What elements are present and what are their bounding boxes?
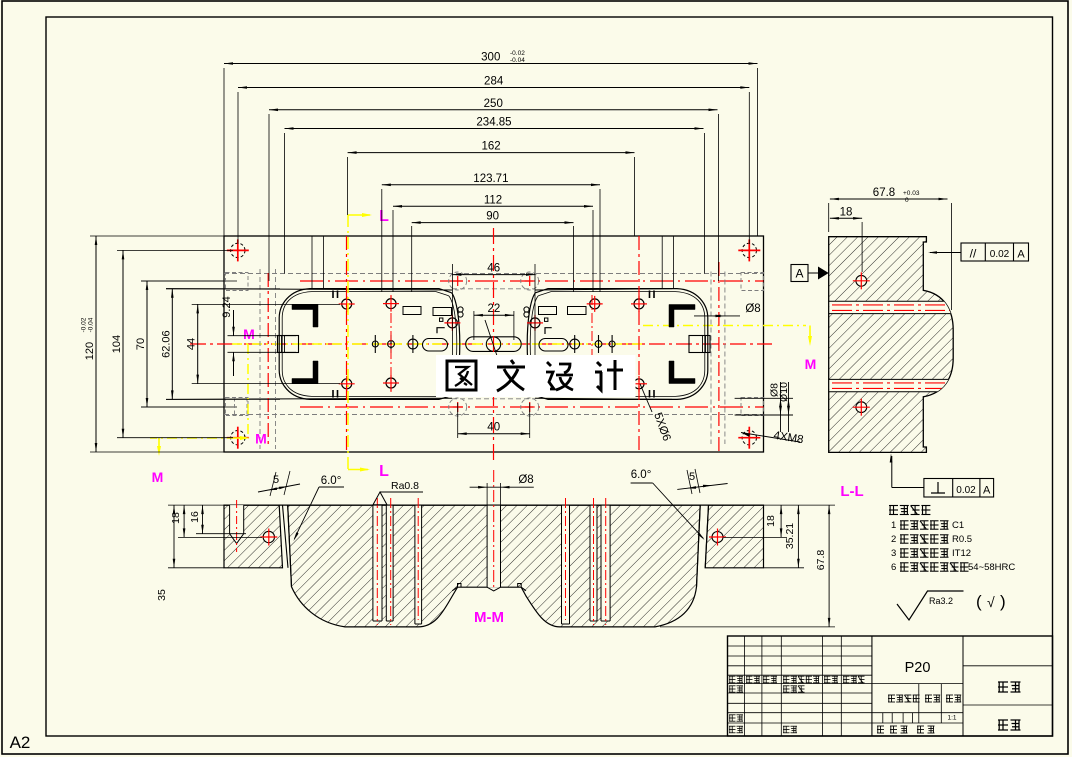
red vertical small right bbox=[591, 295, 593, 392]
title row line 2 bbox=[728, 665, 872, 667]
M-M dim 16 bbox=[202, 505, 204, 534]
svg-text:35.21: 35.21 bbox=[784, 523, 796, 549]
small corner mark left bbox=[437, 328, 445, 334]
header row labels bbox=[729, 676, 736, 683]
centerline pin #1 bbox=[372, 341, 378, 347]
M-M pin channel 4 bbox=[562, 506, 570, 625]
svg-text:M: M bbox=[243, 326, 255, 342]
title col line 1 bbox=[761, 636, 763, 736]
title row line 6 bbox=[728, 702, 872, 704]
svg-text:90: 90 bbox=[486, 211, 499, 223]
title row line 4 bbox=[728, 683, 872, 685]
svg-text:16: 16 bbox=[189, 511, 201, 523]
part name xinxin bbox=[998, 682, 1008, 692]
svg-text:300: 300 bbox=[481, 52, 500, 64]
red vertical plate center bbox=[493, 228, 495, 460]
dimension 44 bbox=[197, 304, 199, 383]
extension lines top dims bbox=[223, 68, 225, 236]
hole phi6 #4 bbox=[634, 299, 644, 309]
svg-text:162: 162 bbox=[481, 141, 500, 153]
watermark char wen bbox=[497, 360, 525, 391]
title row line 5 bbox=[728, 692, 872, 694]
sheets label bbox=[877, 726, 884, 733]
L-L hole upper bbox=[856, 275, 867, 286]
parallelism tolerance frame bbox=[961, 243, 1029, 261]
svg-text:40: 40 bbox=[487, 422, 500, 434]
dimension 22 bbox=[474, 314, 514, 316]
svg-text:6.0°: 6.0° bbox=[321, 475, 342, 487]
title col line 3 bbox=[822, 636, 824, 736]
dimension 40 bbox=[458, 433, 530, 435]
L-L red centerlines upper bbox=[832, 304, 951, 306]
right lens top bracket bbox=[669, 305, 695, 328]
centerline pin #6 bbox=[609, 341, 615, 347]
M-M dim 5 left bbox=[258, 484, 300, 492]
M-M center red line bbox=[493, 470, 495, 590]
watermark box bbox=[436, 355, 636, 397]
plan view plate outline bbox=[224, 236, 764, 452]
svg-text:Ø8: Ø8 bbox=[745, 303, 760, 315]
extension lines left dims bbox=[90, 235, 224, 237]
stage row bottom bbox=[872, 712, 963, 714]
svg-text:Ø8: Ø8 bbox=[518, 474, 533, 486]
hole phi6 #7 bbox=[590, 379, 600, 389]
M-M dim 5 right bbox=[677, 484, 727, 490]
svg-text:A: A bbox=[1017, 249, 1025, 261]
M-M Ra0.8 bbox=[373, 492, 423, 505]
svg-text:62.06: 62.06 bbox=[160, 330, 172, 358]
svg-text:54~58HRC: 54~58HRC bbox=[968, 562, 1015, 573]
section line L bbox=[347, 215, 349, 473]
svg-text:67.8: 67.8 bbox=[815, 550, 827, 571]
svg-text:67.8: 67.8 bbox=[873, 187, 895, 199]
dimension 70 bbox=[146, 281, 148, 407]
title block outer bbox=[728, 636, 1053, 736]
left lens bottom bracket bbox=[292, 361, 318, 384]
svg-text:18: 18 bbox=[840, 206, 853, 218]
hinge circles left bbox=[458, 307, 463, 312]
title col line 5 bbox=[871, 636, 873, 736]
dimension phi8 phi10 right bbox=[735, 397, 793, 399]
dimension 120 bbox=[95, 236, 97, 452]
M-M dim 35.21 bbox=[797, 505, 799, 568]
L-L hole lower bbox=[856, 402, 867, 413]
small cells row bbox=[872, 720, 963, 722]
svg-text:-0.02: -0.02 bbox=[81, 317, 88, 332]
M-M pin channel 3 bbox=[415, 506, 422, 625]
yellow section path M along centerline bbox=[232, 343, 643, 345]
dimension 9.24 bbox=[233, 310, 235, 336]
svg-text:3: 3 bbox=[891, 548, 896, 559]
plan line top of cavity band bbox=[166, 289, 452, 290]
watermark char ji bbox=[595, 360, 623, 390]
dimension 250 bbox=[269, 109, 718, 111]
left lens top bracket bbox=[292, 305, 318, 328]
svg-text:+0.03: +0.03 bbox=[903, 190, 920, 197]
hidden line upper band bbox=[224, 273, 764, 275]
right core square feature bbox=[689, 336, 710, 353]
hole phi6 #9 bbox=[447, 318, 457, 328]
dimension 90 bbox=[412, 222, 574, 224]
svg-text:0: 0 bbox=[905, 197, 909, 204]
hole phi6 #6 bbox=[386, 378, 396, 388]
svg-text:M-M: M-M bbox=[474, 609, 504, 626]
dimension 62.06 bbox=[171, 289, 173, 400]
svg-text:44: 44 bbox=[186, 338, 198, 350]
hidden vertical edges right bbox=[710, 272, 712, 445]
svg-text:M: M bbox=[805, 356, 817, 372]
hole phi6 #10 bbox=[530, 318, 540, 328]
dimension 46 bbox=[452, 274, 535, 276]
svg-text:104: 104 bbox=[111, 335, 123, 353]
svg-text:(: ( bbox=[976, 592, 982, 611]
M-M pin channel 1 bbox=[373, 506, 382, 622]
M-M pin channel 6 bbox=[601, 506, 610, 622]
centerline pin #5 bbox=[595, 341, 602, 348]
M-M top edge bbox=[224, 504, 764, 506]
svg-text:46: 46 bbox=[487, 263, 500, 275]
title mid divider bbox=[871, 636, 873, 736]
small corner mark right bbox=[443, 355, 450, 361]
corner hole M8 #2 bbox=[742, 243, 756, 257]
svg-text:-0.02: -0.02 bbox=[510, 50, 525, 57]
right col dividers bbox=[963, 665, 1053, 667]
svg-text:120: 120 bbox=[84, 342, 96, 360]
L-L white band lower bbox=[829, 379, 953, 391]
svg-text:): ) bbox=[1000, 592, 1006, 611]
svg-text://: // bbox=[970, 247, 977, 261]
svg-text:IT12: IT12 bbox=[952, 548, 971, 559]
left lens inner contour bbox=[449, 296, 457, 393]
right lens inner contour bbox=[530, 296, 538, 393]
insert rect right b bbox=[568, 307, 587, 315]
dimension 234.85 bbox=[285, 128, 704, 130]
svg-text:√: √ bbox=[987, 594, 995, 610]
svg-text:P20: P20 bbox=[905, 660, 931, 676]
watermark char she bbox=[546, 362, 573, 390]
M-M plateau ears bbox=[452, 584, 461, 591]
hidden vertical edges left bbox=[259, 269, 261, 449]
insert rect right a bbox=[539, 307, 557, 315]
svg-text:0.02: 0.02 bbox=[956, 485, 976, 496]
centerline pin #3 bbox=[408, 339, 418, 349]
svg-text:Ø10: Ø10 bbox=[778, 382, 790, 402]
title row line 1 bbox=[728, 655, 872, 657]
svg-text:L-L: L-L bbox=[840, 483, 863, 500]
svg-text:5: 5 bbox=[689, 471, 695, 483]
hidden short verticals bottom left bbox=[234, 398, 236, 416]
perpendicularity tolerance frame bbox=[924, 479, 994, 498]
svg-text:9.24: 9.24 bbox=[221, 296, 233, 317]
dimension 112 bbox=[393, 205, 593, 207]
title row line 0 bbox=[728, 645, 872, 647]
tech req title bbox=[889, 506, 898, 515]
M-M left slot bbox=[230, 505, 244, 534]
hidden hole #4 bbox=[521, 398, 539, 416]
hole phi6 #8 bbox=[634, 379, 644, 389]
M-M pin channel 2 bbox=[386, 506, 393, 622]
red vertical centerline col1 bbox=[267, 273, 269, 448]
dimension 123.71 bbox=[382, 184, 600, 186]
title right divider bbox=[962, 636, 964, 736]
red centerline lower hole row bbox=[141, 406, 237, 408]
row gongyi bbox=[729, 726, 736, 733]
hole phi6 #1 bbox=[342, 299, 352, 309]
right lens bottom bracket bbox=[669, 361, 695, 384]
hole phi6 #5 bbox=[342, 379, 352, 389]
dimension 162 bbox=[348, 152, 635, 154]
dimension 284 bbox=[238, 87, 749, 89]
svg-text:L: L bbox=[379, 208, 389, 225]
surface finish symbol bbox=[897, 591, 964, 620]
M-M left block bbox=[224, 505, 283, 568]
centerline pin #4 bbox=[570, 339, 580, 349]
red vertical centerline col2 bbox=[346, 236, 348, 452]
title row line 7 bbox=[728, 712, 872, 714]
hole phi6 #2 bbox=[386, 299, 396, 309]
slot left bbox=[423, 339, 448, 352]
M-M center hole walls bbox=[487, 506, 500, 588]
svg-text:234.85: 234.85 bbox=[476, 117, 511, 129]
svg-text:M: M bbox=[152, 469, 164, 485]
svg-text:0.02: 0.02 bbox=[990, 249, 1010, 260]
left core square feature bbox=[278, 336, 299, 353]
svg-text:L: L bbox=[379, 463, 389, 480]
svg-text:-0.04: -0.04 bbox=[88, 317, 95, 332]
M-M hole right bbox=[712, 532, 723, 543]
title row line 8 bbox=[728, 722, 872, 724]
svg-text:18: 18 bbox=[765, 515, 777, 527]
hidden dash between lenses bottom bbox=[452, 398, 535, 400]
hidden corner boss #3 bbox=[226, 398, 249, 416]
L-L red centerlines lower bbox=[832, 382, 951, 384]
corner hole M8 #1 bbox=[231, 243, 245, 257]
M-M dim 67.8 bbox=[828, 505, 830, 627]
svg-text:70: 70 bbox=[135, 338, 147, 350]
svg-text:2: 2 bbox=[891, 534, 896, 545]
svg-text:C1: C1 bbox=[952, 520, 964, 531]
svg-text:R0.5: R0.5 bbox=[952, 534, 972, 545]
dimension 300 bbox=[224, 63, 758, 65]
red centerline upper hole row bbox=[141, 280, 237, 282]
stage label bbox=[888, 695, 895, 702]
corner hole M8 #3 bbox=[231, 431, 245, 445]
svg-text:22: 22 bbox=[488, 303, 501, 315]
red vertical centerline col3 bbox=[638, 236, 640, 452]
svg-text:1: 1 bbox=[891, 520, 896, 531]
centerline pin #2 bbox=[388, 341, 395, 348]
section line M right arrow bbox=[809, 326, 811, 343]
svg-text:18: 18 bbox=[170, 512, 182, 524]
hidden corner boss #2 bbox=[741, 273, 764, 291]
red vertical small left bbox=[390, 295, 392, 392]
M-M hole left bbox=[263, 531, 274, 542]
plan line bottom of cavity band bbox=[166, 398, 452, 399]
svg-text:Ra3.2: Ra3.2 bbox=[929, 596, 953, 606]
hinge circles right bbox=[524, 307, 529, 312]
M-M pin channel 5 bbox=[590, 506, 597, 622]
hole phi6 #3 bbox=[590, 299, 600, 309]
insert rect left b bbox=[433, 308, 452, 316]
L-L dim 18 bbox=[830, 217, 862, 219]
svg-text:112: 112 bbox=[484, 194, 502, 206]
dimension 104 bbox=[122, 250, 124, 437]
M-M red pin centerlines bbox=[376, 498, 378, 625]
M-M red centerline left slot bbox=[236, 500, 238, 552]
central slot 22 bbox=[466, 337, 521, 352]
red main horizontal centerline bbox=[190, 343, 772, 345]
hidden corner boss #1 bbox=[226, 273, 249, 291]
M-M right block bbox=[705, 505, 763, 568]
hidden hole #3 bbox=[449, 398, 467, 416]
svg-text:284: 284 bbox=[484, 76, 504, 88]
hidden hole #2 bbox=[521, 272, 539, 290]
L-L dim 67.8 bbox=[830, 198, 948, 200]
svg-text:6.0°: 6.0° bbox=[631, 469, 652, 481]
left lens cavity outline bbox=[452, 293, 460, 396]
L-L section body bbox=[829, 237, 954, 453]
datum A flag bbox=[791, 265, 808, 282]
yellow section path M upper-right run bbox=[643, 325, 806, 327]
drawing no bbox=[998, 720, 1008, 730]
svg-text:A: A bbox=[795, 267, 803, 281]
title col line 2 bbox=[780, 636, 782, 736]
hidden hole #1 bbox=[449, 272, 467, 290]
slot right bbox=[539, 339, 568, 352]
corner hole M8 #4 bbox=[742, 431, 756, 445]
stage small cols bbox=[882, 713, 884, 723]
svg-text:1:1: 1:1 bbox=[947, 715, 956, 722]
svg-text:-0.04: -0.04 bbox=[510, 57, 525, 64]
title row line 3 bbox=[728, 674, 872, 676]
watermark char tu bbox=[447, 361, 476, 390]
stage cols bbox=[918, 684, 920, 713]
title col line 4 bbox=[840, 636, 842, 736]
L-L white band upper bbox=[829, 301, 953, 313]
M-M dim 35 bbox=[173, 505, 175, 568]
M-M dim 18 left bbox=[183, 505, 185, 537]
extension lines lens top corners bbox=[311, 236, 313, 289]
svg-text:123.71: 123.71 bbox=[473, 173, 508, 185]
svg-text:6: 6 bbox=[891, 562, 896, 573]
red vertical centerline col4 bbox=[718, 262, 720, 452]
row sheji bbox=[729, 686, 736, 692]
right lens cavity outline bbox=[527, 293, 535, 396]
svg-text:35: 35 bbox=[156, 589, 168, 601]
M-M dim phi8 bbox=[486, 483, 488, 505]
svg-text:A: A bbox=[983, 485, 991, 497]
M-M right slot walls bbox=[705, 505, 708, 568]
svg-text:M: M bbox=[255, 431, 267, 447]
hidden corner boss #4 bbox=[741, 398, 764, 416]
insert rect left a bbox=[403, 307, 421, 315]
gate marks II bbox=[332, 291, 334, 299]
svg-text:A2: A2 bbox=[10, 733, 31, 752]
dimension phi8 plan bbox=[694, 315, 740, 317]
M-M middle mass bbox=[288, 505, 701, 627]
svg-text:250: 250 bbox=[484, 98, 503, 110]
row shenhe bbox=[729, 715, 736, 721]
M-M dim 18 right bbox=[780, 505, 782, 537]
svg-text:Ra0.8: Ra0.8 bbox=[391, 480, 419, 492]
title col line 0 bbox=[743, 636, 745, 736]
section line M steps bbox=[247, 344, 249, 438]
M-M left slot walls bbox=[283, 505, 289, 568]
hidden line lower band bbox=[224, 414, 764, 416]
hidden dash between lenses top bbox=[452, 288, 535, 290]
P20 cell bottom bbox=[872, 683, 963, 685]
